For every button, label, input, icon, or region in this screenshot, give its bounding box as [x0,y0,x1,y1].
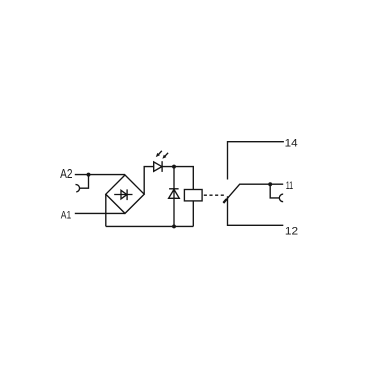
contact 12 fixed tick [223,199,226,203]
node 11 junction dot [268,182,272,186]
bridge rectifier BR1 diamond [106,175,144,213]
LED V2 light arrow 2 [162,153,168,159]
svg-text:12: 12 [285,226,298,238]
tap contact arc at A2 [75,185,79,192]
wire bottom rail [106,225,194,227]
svg-text:A2: A2 [60,166,72,181]
wire freewheeling diode branch [173,167,175,227]
svg-text:14: 14 [285,138,298,150]
node top junction dot [172,165,176,169]
freewheeling diode V1 triangle [169,189,180,198]
LED V2 light arrow 1 [156,151,162,157]
freewheeling diode V1 cathode bar [169,188,179,190]
relay coil K1 [184,190,202,201]
node A2 junction dot [87,173,91,177]
terminal 14 wire [228,142,284,180]
svg-text:11: 11 [286,180,294,192]
wire A1 to bridge bottom vertex [75,212,125,214]
actuator dashed link [204,194,225,196]
node bottom rail junction dot [172,224,176,228]
wire coil bottom to rail [192,201,194,227]
terminal 12 wire [228,196,284,225]
switch moving contact arm [223,184,283,203]
bridge rectifier BR1 inner diode [114,189,132,200]
wire LED to coil top corner [162,167,193,190]
tap contact arc at 11 [279,194,283,202]
LED V2 triangle [154,162,162,171]
LED V2 cathode bar [161,161,163,172]
wire A2 to bridge top vertex [75,174,125,176]
wire tap stub at 11 [270,184,279,198]
wire bridge left vertex down to bottom rail [105,194,107,226]
wire tap stub at A2 [80,175,89,189]
wire bridge right vertex up to LED [144,167,154,195]
svg-text:A1: A1 [61,210,72,222]
